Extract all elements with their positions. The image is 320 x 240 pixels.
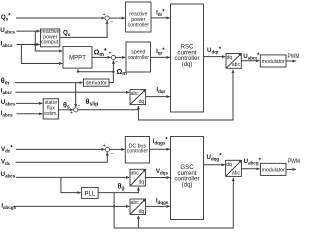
svg-text:+: + <box>103 12 106 18</box>
wire Idqr to RSC <box>146 96 170 98</box>
block abc-dq rotor current <box>130 90 146 106</box>
svg-text:−: − <box>111 151 114 157</box>
svg-text:dq: dq <box>227 55 233 61</box>
wire Uabcs branch to PLL <box>61 177 81 192</box>
block reactive power comput <box>41 29 60 47</box>
svg-text:dq: dq <box>139 99 145 105</box>
summing junction sum2 (speed) <box>111 55 115 59</box>
wire sum2 to speed controller <box>115 56 125 58</box>
block speed controller <box>126 42 151 72</box>
wire Iqr* to RSC <box>151 56 170 58</box>
svg-text:PLL: PLL <box>84 192 95 198</box>
svg-text:+: + <box>70 110 73 116</box>
svg-text:PWM: PWM <box>288 53 300 60</box>
svg-text:+: + <box>103 143 106 149</box>
block reactive power controller <box>126 2 151 32</box>
block stator flux estim <box>43 99 58 119</box>
wire Iabcr to abc-dq rotor <box>16 91 130 93</box>
summing junction sum1 (Qs) <box>105 16 109 20</box>
wire Uabcr* to modulator top <box>241 60 259 62</box>
wire Qs* to sum1 <box>16 17 105 19</box>
wire Qs feedback to sum1 <box>60 21 107 38</box>
block MPPT <box>63 47 92 69</box>
svg-text:−: − <box>115 59 118 65</box>
junction dot theta_g crossing Iabcgs <box>113 205 115 207</box>
wire Idr* to RSC <box>151 17 170 19</box>
wire Iabcs to stator flux estim <box>17 113 43 115</box>
svg-text:dq: dq <box>139 180 145 186</box>
wire Idqgs* to GSC <box>150 148 170 150</box>
block GSC current controller <box>171 137 204 220</box>
wire sum1 to reactive power controller <box>109 17 125 19</box>
wire theta_m to derivator <box>15 82 83 84</box>
wire Uabcg* to modulator bottom <box>241 168 259 170</box>
wire derivator up to sum2 <box>109 61 113 83</box>
wire Idqgs to GSC <box>146 205 170 207</box>
wire PLL theta_g to abc-dq grid voltage bottom <box>98 187 138 192</box>
junction dot Uabcs branch crossing Iabcs <box>34 43 36 45</box>
summing junction sum3 (theta) <box>74 108 78 112</box>
wire stator flux to sum3 <box>58 109 73 111</box>
svg-text:abc: abc <box>232 62 241 68</box>
wire Udqr* to dq-abc top <box>204 56 226 58</box>
svg-text:+: + <box>108 51 111 57</box>
block DC bus controller <box>125 137 149 164</box>
wire Iabcgs to abc-dq grid current <box>14 205 130 207</box>
svg-text:dq: dq <box>139 209 145 215</box>
wire MPPT to sum2 <box>92 56 111 58</box>
wire Vdc feedback to sum4 <box>16 152 108 162</box>
wire theta_g branch up to abc-dq grid current bottom <box>137 216 139 228</box>
wire Iabcs to reactive power comput <box>17 44 40 46</box>
svg-text:estim.: estim. <box>44 111 57 117</box>
svg-text:−: − <box>77 104 80 110</box>
wire Uabcs to reactive power comput <box>16 30 40 32</box>
block modulator (GSC) <box>261 163 287 175</box>
wire theta_slip to abc-dq rotor bottom <box>78 106 139 110</box>
svg-text:derivator: derivator <box>85 81 107 87</box>
svg-text:abc: abc <box>232 170 241 176</box>
junction dot Omega_m branch <box>112 71 114 73</box>
svg-text:controller: controller <box>127 148 149 154</box>
svg-text:dq: dq <box>226 162 232 168</box>
block dq-abc rotor voltage <box>226 54 241 69</box>
wire Vdqs to GSC <box>146 177 170 179</box>
svg-text:controller: controller <box>128 22 150 28</box>
wire Vdc* to sum4 <box>16 148 105 150</box>
svg-text:comput.: comput. <box>41 40 59 46</box>
wire Udqg* to dq-abc GSC <box>204 164 225 166</box>
block RSC current controller <box>171 4 204 112</box>
svg-text:−: − <box>110 19 113 25</box>
wire sum4 to DC bus controller <box>109 148 124 150</box>
svg-text:abc: abc <box>131 171 140 177</box>
svg-text:abc: abc <box>131 91 140 97</box>
wire theta_g down and along bottom to dq-abc GSC <box>114 178 233 228</box>
svg-text:modulator: modulator <box>262 59 285 65</box>
block modulator (RSC) <box>260 55 286 67</box>
block dq-abc GSC <box>226 160 242 176</box>
svg-text:PWM: PWM <box>288 158 300 165</box>
wire PWM out (top) <box>286 60 296 62</box>
wire Uabcs to stator flux estim <box>16 102 42 104</box>
wire PWM out (bottom) <box>286 168 296 170</box>
wire Omega_m branch to MPPT bottom <box>78 69 113 72</box>
block derivator <box>84 79 110 87</box>
wire Iabcs branch down to MPPT <box>21 45 62 64</box>
svg-text:(dq): (dq) <box>182 182 193 189</box>
wire Uabcs to abc-dq grid voltage <box>16 176 129 178</box>
svg-text:modulator: modulator <box>262 168 285 174</box>
svg-text:abc: abc <box>131 200 140 206</box>
block abc-dq grid current <box>130 199 146 215</box>
wire theta_m branch down to sum3 <box>75 83 77 108</box>
wire Uabcs branch down to MPPT <box>35 31 62 51</box>
svg-text:MPPT: MPPT <box>69 54 86 61</box>
svg-text:(dq): (dq) <box>182 61 193 68</box>
summing junction sum4 (Vdc) <box>105 147 109 151</box>
block abc-dq grid voltage <box>130 169 146 186</box>
block PLL <box>82 187 99 198</box>
svg-text:controller: controller <box>128 55 150 61</box>
wire theta_slip under RSC to dq-abc top <box>138 70 233 120</box>
